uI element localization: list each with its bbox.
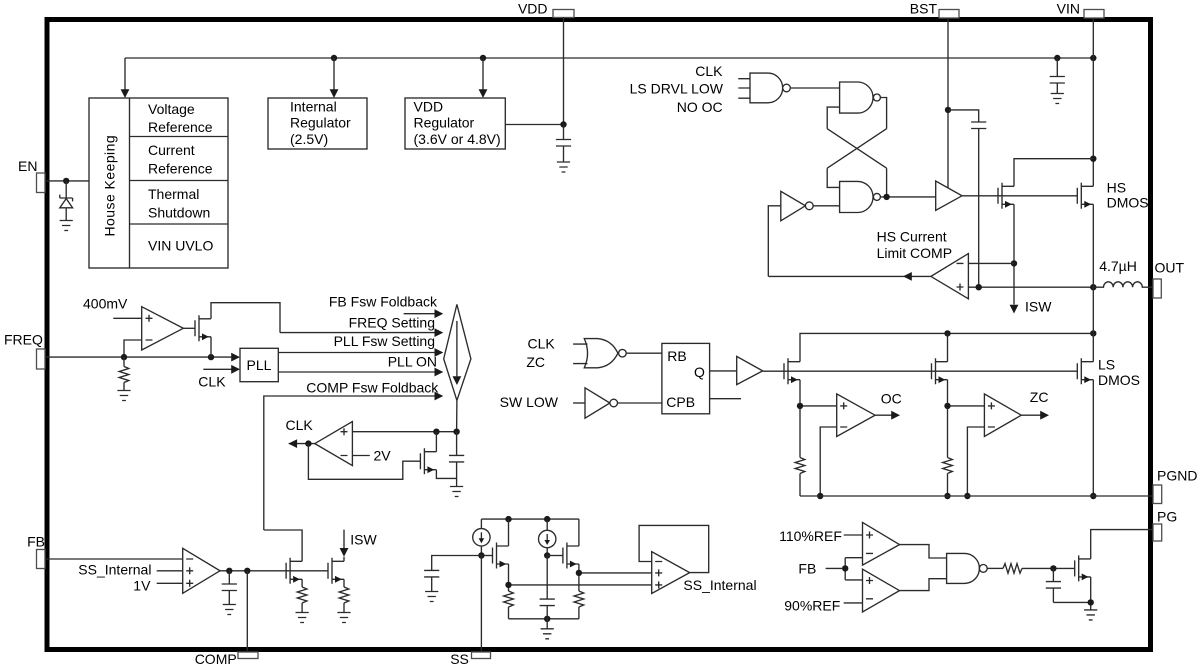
svg-text:COMP Fsw Foldback: COMP Fsw Foldback (306, 379, 439, 395)
wire: ZC sense drain (947, 333, 949, 361)
wire: comparator minus input (968, 262, 1014, 264)
wire: FET C drain to rail (508, 519, 510, 546)
resistor: PG gate resistor (987, 564, 1074, 574)
capacitor: ramp cap (449, 432, 464, 487)
pin VDD (518, 1, 574, 18)
wire: FB Fsw Foldback (329, 294, 443, 318)
node: bus junction to VDD Regulator (479, 55, 488, 98)
capacitor: internal SS cap (540, 556, 555, 619)
wire: 1V reference stub (133, 578, 182, 594)
wire: VIN pin drop (1090, 18, 1096, 186)
resistor: FET C source resistor (504, 591, 514, 619)
transistor: FREQ pass FET (195, 315, 211, 341)
NAND gate: PG NAND (947, 553, 988, 583)
wire: SS top rail (481, 516, 579, 522)
wire: PGND rail (800, 495, 1153, 497)
wire: LS source to PGND rail (1090, 380, 1096, 499)
svg-text:PLL ON: PLL ON (388, 354, 437, 370)
svg-text:Regulator: Regulator (414, 115, 475, 131)
wire: OC output (875, 391, 902, 420)
svg-text:VIN UVLO: VIN UVLO (148, 238, 213, 254)
wire: comparator inverting input from FREQ pin (124, 340, 142, 357)
wire: comparator output to inverter (768, 272, 931, 281)
capacitor: VIN bypass cap (1050, 55, 1065, 94)
wire: PLL ON (278, 354, 443, 377)
wire: FREQ FET drain loop to mux (211, 303, 280, 333)
svg-text:VDD: VDD (414, 98, 444, 114)
ground: VDD cap ground (557, 162, 570, 172)
ground: PG ground (1084, 610, 1097, 620)
buffer: LS gate driver (737, 356, 763, 384)
svg-text:OC: OC (881, 391, 902, 407)
wire: SS comparator feedback loop (639, 525, 709, 572)
wire: 90%REF input (784, 598, 862, 614)
svg-text:Shutdown: Shutdown (148, 204, 210, 220)
mux: Fsw select diamond (444, 304, 471, 400)
wire: latch output to driver (880, 194, 935, 200)
wire: 2V reference stub (352, 447, 391, 463)
wire: mux output down (456, 401, 458, 432)
wire: PG FET source to ground (1088, 577, 1094, 610)
wire: internal node to FET D gate (547, 555, 563, 557)
wire: latch cross coupling (827, 129, 886, 169)
wire: FREQ FET source to FREQ net (210, 337, 212, 357)
resistor: FET D source resistor (574, 591, 584, 619)
svg-text:FREQ: FREQ (4, 332, 43, 348)
inverter: SW LOW inverter (585, 388, 618, 418)
svg-text:BST: BST (910, 1, 938, 17)
wire: CPB stub (710, 398, 741, 400)
wire: discharge FET source (436, 470, 456, 479)
comparator: 90%REF UVP comparator (863, 569, 900, 612)
wire: SW node line (968, 284, 1096, 290)
svg-text:Voltage: Voltage (148, 101, 195, 117)
wire: FB sense input (798, 558, 862, 580)
transistor: SS follower FET C (493, 543, 509, 569)
svg-text:FB: FB (798, 560, 816, 576)
NAND gate: latch upper NAND (840, 82, 881, 113)
transistor: HS DMOS (1077, 180, 1148, 211)
wire: inverter output to lower NAND (813, 205, 839, 207)
pin VIN (1057, 1, 1104, 19)
wire: LS drain to SW (1092, 333, 1094, 361)
node: SS node (478, 552, 484, 558)
pin PG (1153, 509, 1177, 542)
wire: discharge FET drain (435, 432, 437, 452)
zener diode: EN ESD clamp (60, 181, 73, 221)
svg-text:House Keeping: House Keeping (102, 135, 118, 237)
pin OUT (1153, 260, 1185, 299)
svg-text:SS: SS (450, 651, 469, 667)
wire: SW LOW input stub (573, 402, 585, 404)
wire: ZC comparator minus to PGND rail (964, 427, 984, 499)
capacitor: VDD decoupling cap (556, 125, 571, 163)
wire: LS gate drive line (763, 370, 1078, 372)
transistor: gm mirror FET B (328, 558, 344, 584)
svg-text:Current: Current (148, 142, 195, 158)
wire: SS_Internal input stub (78, 562, 182, 578)
comparator: ZC comparator (984, 394, 1021, 437)
ground: ramp cap ground (450, 487, 463, 497)
wire: FREQ pin net (45, 353, 240, 362)
wire: FB input (45, 558, 183, 560)
svg-text:ZC: ZC (526, 354, 545, 370)
pin FB (27, 534, 45, 569)
wire: inverter output to CPB (618, 402, 662, 404)
svg-text:LS DRVL LOW: LS DRVL LOW (630, 80, 724, 96)
svg-text:Thermal: Thermal (148, 186, 199, 202)
svg-text:Reference: Reference (148, 119, 213, 135)
svg-text:DMOS: DMOS (1107, 195, 1149, 211)
svg-text:ISW: ISW (1025, 299, 1052, 315)
svg-text:CPB: CPB (666, 394, 695, 410)
transistor: ramp discharge FET (420, 448, 436, 474)
capacitor: external SS cap (424, 556, 481, 592)
wire: ramp reset feedback (308, 444, 420, 480)
current source: SS charge source (473, 519, 490, 555)
svg-text:ISW: ISW (350, 531, 377, 547)
comparator: OC comparator (837, 394, 875, 437)
wire: VDD pin drop (563, 17, 565, 125)
svg-text:VDD: VDD (518, 1, 548, 17)
NAND gate: latch lower NAND (840, 181, 881, 212)
wire: SW vertical to LS drain (1092, 287, 1094, 333)
wire: sense FET drain to VIN (1014, 159, 1093, 187)
transistor: PG pull-down FET (1075, 555, 1091, 581)
svg-text:LS: LS (1098, 357, 1115, 373)
wire: upper NAND second input (827, 107, 839, 129)
comparator: error amplifier (183, 548, 220, 593)
svg-text:CLK: CLK (198, 374, 226, 390)
node: bus end at VIN rail (1090, 55, 1096, 61)
svg-text:Reference: Reference (148, 161, 213, 177)
wire: COMP node (220, 568, 328, 574)
wire: inverter input from current limit comparator (768, 206, 781, 277)
ground: FREQ resistor ground (117, 391, 130, 401)
transistor: OC sense FET (784, 358, 800, 384)
svg-text:FB Fsw Foldback: FB Fsw Foldback (329, 294, 438, 310)
wire: SS pin drop (480, 556, 482, 653)
wire: NAND3 output (790, 87, 839, 89)
svg-text:PG: PG (1157, 509, 1177, 525)
comparator: 110%REF OVP comparator (863, 522, 900, 565)
transistor: gm mirror FET A (286, 558, 302, 584)
svg-text:HS Current: HS Current (877, 229, 947, 245)
comparator: 400mV FREQ comparator (142, 307, 184, 350)
svg-text:SS_Internal: SS_Internal (683, 577, 756, 593)
inductor: 4.7uH (1093, 258, 1153, 287)
wire: sense rail to SW node (800, 330, 1097, 362)
wire: SS node to FET C gate (481, 555, 492, 557)
wire: PG FET drain to PG pin (1091, 530, 1153, 559)
pin EN (18, 158, 45, 193)
capacitor: bootstrap cap (948, 110, 986, 287)
wire: FET D drain to rail (578, 519, 580, 546)
wire: upper NAND output down (880, 98, 886, 129)
comparator: SS_Internal select comparator (652, 552, 690, 594)
node: bus junction to Internal Regulator (330, 55, 339, 98)
node: internal SS node (544, 552, 550, 558)
wire: NAND3 input stubs (738, 79, 750, 99)
wire: COMP pin drop (246, 571, 248, 652)
ground: FET A ground (296, 613, 309, 623)
wire: cross to latch output node (886, 168, 888, 197)
wire: ramp node (352, 429, 459, 435)
svg-text:CLK: CLK (286, 417, 314, 433)
svg-text:COMP: COMP (195, 651, 237, 667)
svg-text:ZC: ZC (1030, 389, 1049, 405)
svg-text:(2.5V): (2.5V) (290, 131, 328, 147)
svg-text:1V: 1V (133, 578, 151, 594)
svg-text:4.7µH: 4.7µH (1099, 258, 1137, 274)
wire: VDD supply bus (125, 57, 1093, 59)
svg-text:90%REF: 90%REF (784, 598, 840, 614)
wire: EN input (45, 178, 89, 184)
block: PLL (240, 348, 278, 381)
wire: ZC output (1021, 389, 1049, 419)
svg-text:SW LOW: SW LOW (500, 394, 559, 410)
block: RS flip-flop RB/CPB (662, 343, 710, 413)
wire: NOR input stubs (573, 344, 587, 364)
ground: SS cap ground (425, 592, 438, 602)
wire: PLL Fsw Setting (278, 333, 443, 357)
wire: VDD Regulator output (505, 121, 566, 127)
svg-text:EN: EN (18, 158, 37, 174)
transistor: SS follower FET D (563, 543, 579, 569)
wire: SS bottom rail (509, 616, 579, 629)
capacitor: PG delay cap (1046, 568, 1091, 602)
comparator: 2V ramp comparator (315, 422, 353, 466)
svg-text:NO OC: NO OC (677, 99, 723, 115)
resistor: mirror FET A source resistor (297, 579, 307, 612)
block: House Keeping (89, 98, 228, 268)
svg-text:CLK: CLK (527, 336, 555, 352)
wire: FREQ Setting (280, 314, 443, 337)
comparator: HS Current Limit COMP (877, 229, 969, 299)
wire: UVP comparator output (900, 579, 947, 591)
transistor: LS DMOS (1077, 357, 1140, 389)
wire: 110%REF input (779, 528, 862, 544)
ground: VIN bypass cap ground (1051, 94, 1064, 104)
svg-text:RB: RB (667, 348, 686, 364)
transistor: HS current sense FET (998, 183, 1014, 209)
wire: Q output (710, 370, 737, 372)
wire: OVP comparator output (900, 545, 947, 558)
wire: bus drop to House Keeping (121, 58, 130, 98)
svg-text:PLL: PLL (247, 357, 272, 373)
wire: CLK output of ramp comparator (286, 417, 315, 448)
svg-text:SS_Internal: SS_Internal (78, 562, 151, 578)
wire: HS gate drive line (962, 195, 1077, 197)
wire: comparator output to pass FET gate (183, 327, 195, 329)
svg-text:2V: 2V (374, 447, 392, 463)
svg-text:FREQ Setting: FREQ Setting (349, 314, 435, 330)
wire: CLK into PLL (203, 365, 240, 374)
current source: internal ramp source (539, 519, 556, 555)
wire: 400mV reference input (113, 317, 141, 319)
block: Internal Regulator (2.5V) (268, 98, 367, 149)
transistor: ZC sense FET (932, 358, 948, 384)
wire: OC sense source node (797, 380, 837, 458)
resistor: OC sense resistor (795, 458, 805, 497)
ground: SS bottom ground (541, 629, 554, 639)
svg-text:CLK: CLK (695, 63, 723, 79)
block: VDD Regulator (3.6V or 4.8V) (405, 98, 505, 149)
wire: COMP Fsw Foldback (264, 379, 444, 530)
resistor: FREQ setting resistor (119, 357, 129, 390)
NOR gate U-nor (584, 339, 626, 368)
wire: ISW sense line (1010, 204, 1053, 314)
NAND gate: 3-input HS enable NAND (750, 73, 790, 103)
svg-text:PGND: PGND (1157, 468, 1197, 484)
svg-text:(3.6V or 4.8V): (3.6V or 4.8V) (414, 131, 501, 147)
pin PGND (1153, 468, 1197, 504)
svg-text:FB: FB (27, 534, 45, 550)
wire: BST pin drop (945, 18, 951, 188)
wire: OC comparator minus to PGND rail (817, 427, 837, 499)
svg-text:DMOS: DMOS (1098, 372, 1140, 388)
buffer: HS gate driver (936, 181, 962, 210)
pin FREQ (4, 332, 45, 370)
ground: FET B ground (337, 613, 350, 623)
pin COMP (195, 651, 258, 667)
wire: FET C source node (505, 564, 651, 591)
wire: mirror FET A drain to COMP Fsw Foldback (264, 530, 302, 561)
svg-text:Regulator: Regulator (290, 115, 351, 131)
wire: NOR output to RB (626, 352, 662, 354)
inverter: current-limit inverter (781, 191, 813, 221)
resistor: mirror FET B source resistor (339, 579, 349, 612)
svg-text:OUT: OUT (1155, 260, 1185, 276)
ground: compensation cap ground (223, 605, 236, 615)
svg-text:110%REF: 110%REF (779, 528, 842, 544)
svg-text:Internal: Internal (290, 98, 337, 114)
ground: EN zener ground (60, 221, 73, 231)
wire: cross to lower NAND first input (827, 168, 839, 187)
pin BST (910, 1, 959, 19)
svg-text:Limit COMP: Limit COMP (877, 245, 952, 261)
wire: FET D source node (576, 564, 652, 591)
svg-text:VIN: VIN (1057, 1, 1080, 17)
pin SS (450, 651, 490, 667)
capacitor: COMP compensation cap (222, 571, 237, 605)
wire: HS DMOS source to SW (1092, 204, 1094, 287)
svg-text:PLL Fsw Setting: PLL Fsw Setting (334, 333, 435, 349)
svg-text:Q: Q (694, 364, 705, 380)
svg-text:HS: HS (1107, 180, 1126, 196)
wire: ISW injection arrow (340, 530, 378, 562)
resistor: ZC sense resistor (943, 458, 953, 500)
wire: ZC sense source node (944, 380, 984, 458)
svg-text:400mV: 400mV (83, 296, 128, 312)
